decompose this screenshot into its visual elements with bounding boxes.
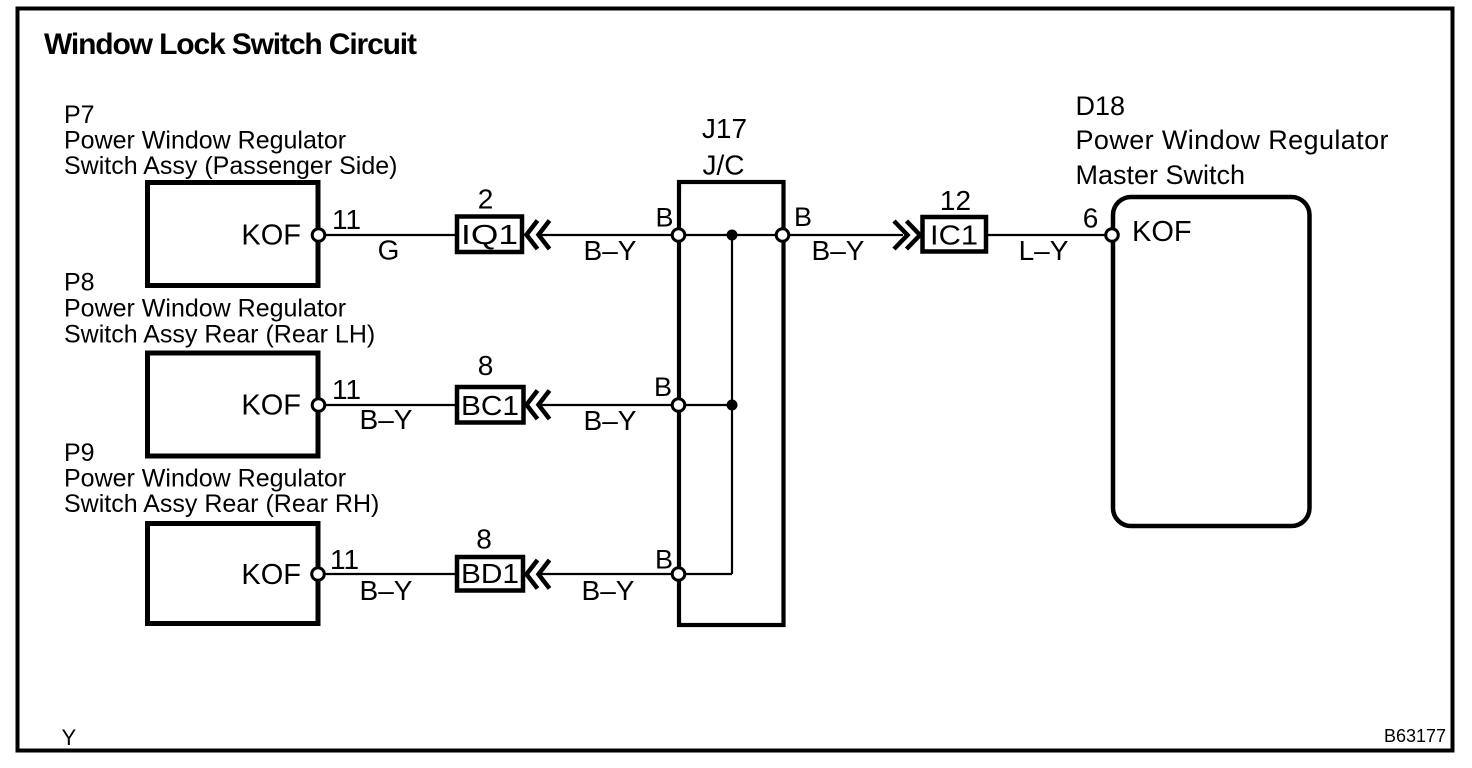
terminal circle J17 right row1 [776, 229, 789, 242]
svg-text:8: 8 [478, 350, 494, 381]
wire J17 internal vertical bus [731, 235, 733, 574]
svg-text:BC1: BC1 [461, 390, 519, 421]
svg-text:Power Window Regulator: Power Window Regulator [64, 295, 346, 323]
svg-text:B63177: B63177 [1384, 726, 1446, 746]
junction dot row1 [727, 230, 738, 241]
svg-text:Power Window Regulator: Power Window Regulator [64, 465, 346, 493]
svg-text:Switch Assy Rear (Rear LH): Switch Assy Rear (Rear LH) [64, 321, 375, 349]
svg-text:KOF: KOF [241, 559, 301, 591]
wire row1 IC1 to D18 pin 6 [986, 234, 1106, 236]
component P9 Power Window Regulator Switch Assy Rear box [148, 524, 319, 624]
component P8 Power Window Regulator Switch Assy Rear box [148, 353, 319, 456]
terminal circle P8 pin 11 [312, 399, 325, 412]
svg-text:11: 11 [332, 204, 361, 235]
svg-text:11: 11 [332, 374, 361, 405]
svg-text:Switch Assy Rear (Rear RH): Switch Assy Rear (Rear RH) [64, 490, 379, 518]
svg-text:P9: P9 [64, 439, 95, 467]
svg-text:J17: J17 [702, 113, 747, 144]
svg-text:KOF: KOF [1132, 216, 1192, 248]
svg-text:KOF: KOF [241, 390, 301, 422]
label P8 connector description [64, 269, 375, 349]
svg-text:J/C: J/C [703, 150, 745, 181]
svg-text:Y: Y [62, 725, 77, 750]
svg-text:8: 8 [476, 524, 492, 555]
svg-text:B–Y: B–Y [584, 405, 637, 436]
svg-text:Power Window Regulator: Power Window Regulator [64, 127, 346, 155]
terminal circle J17 left row1 [672, 229, 685, 242]
wire J17 internal row1 bus [679, 234, 783, 236]
terminal circle D18 pin 6 [1106, 229, 1119, 242]
connector IQ1 box [457, 217, 522, 253]
svg-text:IQ1: IQ1 [461, 219, 518, 250]
wire row1 P7 pin 11 to IQ1 [325, 234, 458, 236]
connector IC1 box [923, 217, 987, 252]
svg-text:B: B [655, 545, 673, 575]
connector BD1 box [457, 557, 523, 591]
terminal circle J17 left row2 [672, 399, 685, 412]
chevron arrows at IC1 [894, 221, 908, 249]
chevron arrows at BC1 [527, 391, 538, 420]
terminal circle J17 left row3 [672, 568, 685, 581]
svg-text:B–Y: B–Y [360, 404, 413, 435]
wire row1 J17 right to IC1 [789, 234, 904, 236]
chevron arrows at IQ1 [527, 221, 538, 250]
svg-text:P7: P7 [64, 101, 95, 129]
wire J17 internal row2 stub [679, 404, 732, 406]
svg-text:B–Y: B–Y [360, 575, 413, 606]
svg-text:L–Y: L–Y [1019, 235, 1069, 266]
svg-text:Switch Assy (Passenger Side): Switch Assy (Passenger Side) [64, 152, 397, 180]
svg-text:11: 11 [330, 544, 359, 575]
svg-text:Master Switch: Master Switch [1076, 160, 1246, 190]
svg-text:B: B [656, 203, 674, 233]
component D18 Power Window Regulator Master Switch box [1113, 197, 1310, 526]
svg-text:BD1: BD1 [461, 558, 519, 589]
junction dot row2 [727, 400, 738, 411]
svg-text:6: 6 [1083, 203, 1099, 234]
svg-text:B: B [654, 372, 672, 402]
svg-text:KOF: KOF [241, 220, 301, 252]
svg-text:D18: D18 [1076, 91, 1126, 121]
connector BC1 box [457, 387, 524, 423]
svg-text:G: G [378, 235, 400, 266]
terminal circle P9 pin 11 [312, 568, 325, 581]
svg-text:2: 2 [478, 184, 494, 215]
wire row2 P8 pin 11 to BC1 [325, 404, 458, 406]
terminal circle P7 pin 11 [312, 229, 325, 242]
svg-text:B–Y: B–Y [582, 575, 635, 606]
svg-text:12: 12 [940, 185, 971, 216]
component J17 junction connector box [679, 182, 784, 625]
svg-text:Power Window Regulator: Power Window Regulator [1076, 125, 1389, 155]
svg-text:P8: P8 [64, 269, 95, 297]
label D18 connector description [1076, 91, 1389, 190]
wire J17 internal row3 stub [679, 573, 732, 575]
wire row2 BC1 to J17 left [541, 404, 673, 406]
svg-text:B–Y: B–Y [584, 235, 637, 266]
label P7 connector description [64, 101, 397, 180]
svg-text:B: B [794, 202, 812, 232]
wire row1 IQ1 to J17 left [541, 234, 673, 236]
chevron arrows at BD1 [527, 560, 538, 589]
label P9 connector description [64, 439, 379, 518]
wire row3 P9 pin 11 to BD1 [325, 573, 458, 575]
svg-text:B–Y: B–Y [812, 235, 865, 266]
wire row3 BD1 to J17 left [541, 573, 673, 575]
svg-text:IC1: IC1 [930, 220, 978, 251]
svg-text:Window Lock Switch Circuit: Window Lock Switch Circuit [44, 28, 417, 61]
component P7 Power Window Regulator Switch Assy box [148, 183, 319, 286]
